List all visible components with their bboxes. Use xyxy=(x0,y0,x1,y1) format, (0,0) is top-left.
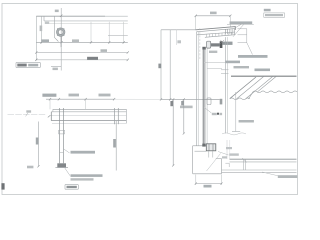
cap holder ticks xyxy=(207,32,235,37)
post centerline vertical xyxy=(60,8,62,71)
elev dim line faint continuation xyxy=(114,98,161,100)
post1 left edge xyxy=(59,108,61,163)
dim row2 line xyxy=(36,52,128,54)
text right tD xyxy=(255,69,271,72)
sheet corner mark bottom-left xyxy=(1,183,4,189)
bracket right arm xyxy=(222,42,232,45)
base dim ext left xyxy=(195,175,197,186)
ticks on y99.4 xyxy=(160,98,171,100)
bracket X marks xyxy=(220,40,224,44)
dim row1 line xyxy=(36,41,128,43)
dim long bottom tick xyxy=(172,164,174,166)
lower small dim line xyxy=(51,66,61,68)
cap outer top edge xyxy=(196,27,236,30)
dim row3 end ticks xyxy=(35,59,129,61)
leader2 text row2 xyxy=(71,178,94,180)
small break wavy xyxy=(222,133,246,135)
slab break line 2 wavy xyxy=(230,98,250,100)
base curb left xyxy=(192,146,194,174)
bracket wall block dark xyxy=(220,41,223,48)
rail band left end top xyxy=(52,109,54,112)
rail band right end xyxy=(125,109,127,123)
small text near corner xyxy=(177,40,181,43)
centerline dark segment below circle xyxy=(60,36,62,47)
cap inner2 sloped line xyxy=(197,32,235,35)
bold total text xyxy=(87,57,98,60)
rail lower faint line xyxy=(46,22,128,24)
title label dark text xyxy=(17,64,26,67)
leader diagonal to cap xyxy=(234,24,241,28)
title label light text xyxy=(28,64,38,67)
dim text 50 top xyxy=(55,10,59,13)
ext vertical x91 xyxy=(90,22,92,44)
steel post dark pair xyxy=(202,47,204,144)
floor slab bottom xyxy=(222,172,297,174)
elev left dim rotated text xyxy=(36,138,39,145)
post circle inner xyxy=(58,30,63,35)
dim vertical short xyxy=(183,99,185,133)
text after diamond xyxy=(220,113,223,115)
roofing line short xyxy=(207,67,222,69)
rail band line2 xyxy=(51,111,126,113)
datum text xyxy=(26,110,31,112)
rail band line3 xyxy=(51,114,126,116)
reference leader vertical xyxy=(235,92,237,131)
elev right dim rotated text xyxy=(113,139,116,148)
base plate box xyxy=(206,144,216,151)
leader bend at rail end xyxy=(54,16,58,41)
small text 60 left xyxy=(45,22,49,24)
black diamond xyxy=(217,113,219,115)
post2 pair xyxy=(114,108,116,124)
title label box 1 xyxy=(16,62,40,67)
small text curb right xyxy=(222,156,227,158)
reference leader foot xyxy=(232,131,240,133)
leader underline kasagi xyxy=(227,23,254,25)
top dim ext right xyxy=(229,16,231,27)
base small tick right xyxy=(225,163,229,167)
floor finish bottom xyxy=(230,161,297,163)
post inner faint line xyxy=(206,47,208,143)
base dim ticks xyxy=(195,182,223,184)
slab break line 1 wavy xyxy=(253,91,297,93)
sheet border frame xyxy=(2,4,298,195)
dim short ticks xyxy=(183,98,185,134)
post centerline dashed xyxy=(199,28,201,60)
faint wall lines below xyxy=(226,140,228,159)
section dim line y99.4 xyxy=(161,98,204,100)
post circle outer xyxy=(57,28,65,36)
anchor bolts below plate xyxy=(208,151,210,158)
tick below row1 at x61 xyxy=(60,42,62,48)
wall outer face line2 xyxy=(197,32,199,146)
floor text right leader xyxy=(262,172,281,177)
top dim text xyxy=(210,12,217,15)
dim short rotated text xyxy=(181,101,184,105)
text right tB xyxy=(226,61,241,64)
leader connector vertical xyxy=(246,29,248,43)
datum tick small xyxy=(26,113,28,117)
leader diagonal to holder xyxy=(233,25,244,37)
ext line left x36 xyxy=(35,16,37,60)
leader stub 3 xyxy=(238,42,248,44)
cap holder bottom line xyxy=(205,35,236,38)
base plate under line xyxy=(55,167,68,169)
reference text xyxy=(239,120,254,123)
elev dim ticks xyxy=(49,98,115,100)
dim vertical long xyxy=(172,99,174,165)
text with diamond xyxy=(212,113,217,115)
elev left dim bottom text xyxy=(27,166,33,169)
elev ext verticals xyxy=(49,99,51,109)
lower small dim text xyxy=(53,68,58,71)
floor text right xyxy=(278,175,298,178)
wall corner horizontal xyxy=(161,29,196,31)
wall corner vertical c faint xyxy=(176,30,178,45)
dim row2 end ticks xyxy=(35,51,129,53)
note line1 text xyxy=(264,9,271,12)
rotated dim text left xyxy=(40,26,43,32)
tick at top dim xyxy=(60,15,62,17)
rail band left end xyxy=(50,112,52,121)
lower bracket arm xyxy=(203,98,220,100)
leader stub 1 xyxy=(238,28,248,30)
elev dim line xyxy=(46,98,114,100)
roof thickness tick b xyxy=(221,72,229,74)
dim row1 ticks xyxy=(40,41,125,43)
grab bar section xyxy=(207,41,211,48)
lower bracket block xyxy=(220,99,223,105)
cap end vertical hatch xyxy=(226,29,235,35)
dim row1 text a xyxy=(42,39,50,42)
wall right face b xyxy=(227,37,229,133)
rotated dim text x161 xyxy=(158,64,161,69)
rail band line5 xyxy=(52,122,126,124)
base curb top left xyxy=(195,150,207,152)
base leader text xyxy=(229,153,239,155)
floor joint verticals xyxy=(243,159,245,170)
base plate bolts xyxy=(208,144,210,151)
base diagonal hatch xyxy=(207,154,221,172)
base step right xyxy=(216,158,222,160)
bottom label box xyxy=(65,185,78,190)
post top dark nub xyxy=(202,47,205,50)
dim row2 text xyxy=(101,49,108,52)
note box text xyxy=(265,14,283,16)
elev dim text b xyxy=(69,94,80,97)
slab hatch xyxy=(237,76,277,99)
elev dim text c xyxy=(99,94,111,97)
lower bracket bar xyxy=(207,98,211,105)
leader2 text row1 xyxy=(71,174,103,177)
circle bumps xyxy=(57,28,65,36)
rail left end cap xyxy=(43,16,45,21)
base curb right xyxy=(221,159,223,174)
small text above curb right xyxy=(226,147,232,149)
bottom label text xyxy=(67,186,77,188)
rail top edge xyxy=(36,15,105,17)
post1 right edge xyxy=(63,108,65,163)
elev right dim vertical xyxy=(115,121,117,171)
leader diagonal from post xyxy=(205,108,212,113)
dim long top tick xyxy=(172,98,174,100)
floor slab top xyxy=(222,169,297,171)
text right tC xyxy=(234,66,250,68)
ext vertical x124 xyxy=(123,22,125,44)
leader diagonal to text xyxy=(247,43,253,55)
base leader xyxy=(218,152,229,156)
post circle ring xyxy=(58,29,64,35)
elev left dim bottom tick xyxy=(37,165,39,167)
dim row1 text b xyxy=(72,39,79,42)
roof thickness tick a xyxy=(221,69,229,71)
base dim line xyxy=(196,183,222,185)
leader text kasagi top xyxy=(230,21,253,24)
datum chain line xyxy=(8,113,47,115)
datum end tick xyxy=(48,115,51,117)
leader stub 2 xyxy=(238,34,248,36)
top dim line 150 xyxy=(196,15,231,17)
leader1 from post xyxy=(64,149,70,153)
floor finish top xyxy=(230,158,297,160)
leader2 from base xyxy=(65,168,71,176)
dim row3 total line xyxy=(36,59,128,61)
base curb bottom xyxy=(193,173,222,175)
top dim ext left xyxy=(195,16,197,30)
rail band line4 xyxy=(51,120,126,122)
post1 collar xyxy=(59,130,65,134)
wall outer face line1 xyxy=(196,32,198,146)
bracket small text xyxy=(209,51,217,53)
bracket arm dark xyxy=(211,43,220,46)
ext line x41 xyxy=(40,16,42,43)
ext vertical x109 xyxy=(108,22,110,44)
leader line mid xyxy=(205,61,236,63)
wall right face a xyxy=(224,37,226,133)
base curb top line xyxy=(193,145,207,147)
elev dim text a xyxy=(42,94,56,97)
base dim text xyxy=(204,185,212,188)
dim long rotated text xyxy=(170,101,173,106)
break connector xyxy=(249,92,254,99)
left text near post xyxy=(180,106,193,109)
post1 joint line xyxy=(60,152,64,154)
rail bottom edge xyxy=(44,20,128,22)
text right tA xyxy=(238,55,268,58)
slab haunch diagonal xyxy=(230,77,256,99)
short line y35.7 xyxy=(108,35,128,37)
slab top dark line xyxy=(231,75,297,77)
base dim ext right xyxy=(221,175,223,186)
note box xyxy=(264,13,285,17)
floor joint tick xyxy=(242,158,247,163)
leader1 text xyxy=(71,151,96,154)
elev left dim vertical xyxy=(38,122,40,167)
rail band line1 xyxy=(53,108,127,110)
top dim ticks xyxy=(195,15,232,17)
cap inner line xyxy=(196,29,234,32)
ext vertical x161 xyxy=(160,30,162,100)
ext vertical x170 xyxy=(169,30,171,100)
base plate dark xyxy=(57,163,66,167)
